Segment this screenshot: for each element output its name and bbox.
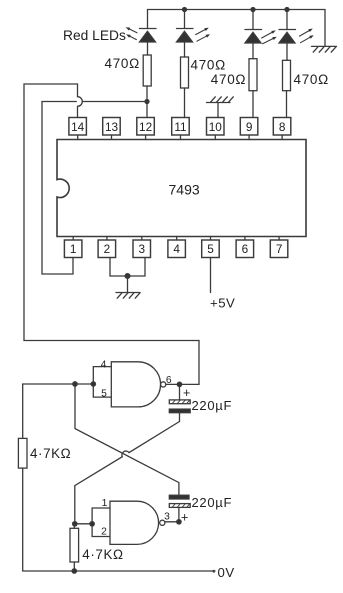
wire: R6 leads [73,524,75,529]
svg-text:470Ω: 470Ω [211,72,246,87]
node: QA junction (pin12/R1/feedback) [145,100,149,104]
resistor R1 470ohm (pin12 column) [143,55,151,86]
wire: pin 1 (CKB) feedback loop to QA node [42,102,147,275]
pin box 9 [240,118,257,140]
pin box 13 [103,118,121,140]
pin box 6 [236,237,254,258]
capacitor C2 220uF [169,495,190,522]
pin box 14 [69,118,87,140]
wire: U2a input feed [23,383,94,385]
pin box 10 [207,118,225,140]
wire: pins 2,3 to ground [110,258,145,277]
ground (below pins 2,3) [116,276,140,298]
wire: U2a input stubs and bracket [93,367,111,398]
pin box 3 [133,237,151,258]
svg-text:4·7KΩ: 4·7KΩ [82,547,123,562]
resistor R5 4.7K [18,438,27,468]
wire: U2a inputs to C2 (diagonal) [75,384,179,495]
resistor R6 4.7K [70,528,79,562]
wire: U2a output pin 6 [166,383,199,385]
svg-text:Red LEDs: Red LEDs [63,28,126,43]
svg-text:470Ω: 470Ω [105,56,140,71]
svg-text:4·7KΩ: 4·7KΩ [30,446,71,461]
node: U2a input node [73,382,77,386]
svg-text:0V: 0V [218,565,235,580]
node: rail junction LED3 [251,8,255,12]
svg-text:2: 2 [101,526,107,537]
svg-text:5: 5 [207,242,214,256]
ground (top right, chassis) [312,46,337,52]
node: U2b output junction [177,520,181,524]
node: U2b input node [73,522,77,526]
node: pins 2/3 ground junction [125,274,130,279]
svg-text:14: 14 [71,120,85,134]
svg-text:+5V: +5V [210,296,235,311]
pin box 5 [202,237,220,258]
svg-text:470Ω: 470Ω [191,57,226,72]
svg-text:3: 3 [164,511,170,522]
ground (above pin 10) [207,97,234,118]
op-amp substitute: NAND gate U2b (pins 1,2,3) [110,501,159,544]
wire: LED cathode top rail to ground [148,10,326,47]
LED D4 (red) [279,10,314,61]
pin box 1 [64,237,82,258]
svg-text:5: 5 [101,388,107,399]
wire: R1 to pin 12 [146,86,148,118]
NAND U2a output bubble [161,382,166,387]
svg-text:8: 8 [279,120,286,134]
LED D2 (red) [177,10,211,58]
node: U2a bracket node [91,382,95,386]
svg-text:11: 11 [174,120,186,134]
svg-text:470Ω: 470Ω [294,72,329,87]
svg-text:6: 6 [166,375,172,386]
svg-text:7493: 7493 [169,182,200,198]
node: 0V rail end tick [212,570,215,573]
pin box 11 [172,118,190,140]
wire: R3 to pin 9 [252,91,254,118]
node: U2b bracket node [90,522,94,526]
NAND U2b output bubble [160,520,165,525]
node: U2a output junction [177,382,181,386]
node: R6/0V junction [72,569,76,573]
svg-text:+: + [181,511,188,525]
LED D1 (red) [126,27,156,55]
wire: R5 top lead [22,384,24,438]
wire: U2b input stubs and bracket [92,508,110,537]
wire: R5 bottom lead + 0V rail [23,468,215,571]
pin box 8 [273,118,291,140]
IC U1 7493 body [57,140,306,237]
svg-text:4: 4 [101,359,107,370]
svg-text:9: 9 [246,120,253,134]
svg-text:7: 7 [276,242,283,256]
svg-text:6: 6 [242,242,249,256]
svg-text:12: 12 [139,120,152,134]
wire: astable output to pin 14 (CKA) with hop over feedback [24,84,199,384]
wire: pin 5 to +5V [210,258,212,293]
wire: R2 to pin 11 [184,88,186,118]
svg-text:2: 2 [104,242,111,256]
wire: U2b output pin 3 [165,521,179,523]
resistor R3 470ohm (pin9 column) [249,59,257,91]
svg-text:+: + [183,386,190,400]
pin box 12 [137,118,155,140]
svg-text:10: 10 [209,120,223,134]
svg-text:13: 13 [105,120,119,134]
wire: U2b input feed [75,523,92,525]
capacitor C1 220uF [169,384,190,421]
wire: C1 to U2b inputs (diagonal with hop) [75,422,180,524]
svg-text:1: 1 [70,242,77,256]
pin box 4 [168,237,186,258]
pin box 7 [270,237,288,258]
pin box 2 [98,237,116,258]
svg-text:3: 3 [139,242,146,256]
op-amp substitute: NAND gate U2a (pins 4,5,6) [111,362,160,407]
resistor R4 470ohm (pin8 column) [283,60,291,90]
svg-text:4: 4 [173,242,180,256]
node: rail junction LED2 [183,8,187,12]
LED D3 (red) [245,10,277,59]
svg-text:220µF: 220µF [192,495,233,510]
resistor R2 470ohm (pin11 column) [181,57,189,88]
svg-text:1: 1 [102,498,108,509]
node: rail junction LED4 [285,8,289,12]
wire: R4 to pin 8 [286,91,288,118]
svg-text:220µF: 220µF [192,398,233,413]
